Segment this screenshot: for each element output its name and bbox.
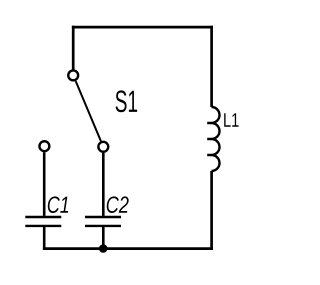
junction node (C2 / bottom rail) bbox=[99, 244, 108, 253]
wire C1 stem bbox=[43, 152, 46, 216]
wire bottom rail bbox=[43, 247, 213, 250]
wire left vertical to switch common bbox=[72, 26, 75, 70]
label L1 bbox=[224, 113, 238, 126]
label C1 bbox=[48, 196, 68, 213]
inductor L1 bbox=[207, 107, 219, 171]
capacitor C2 top plate bbox=[85, 216, 121, 218]
label S1 bbox=[116, 90, 138, 112]
switch S1 throw terminal left (to C1) bbox=[39, 141, 49, 151]
switch S1 common terminal bbox=[68, 70, 78, 80]
wire right vertical lower bbox=[210, 171, 213, 250]
capacitor C2 bottom plate bbox=[85, 225, 121, 227]
switch S1 lever bbox=[76, 81, 101, 141]
label C2 bbox=[107, 196, 129, 213]
wire C2 stem bbox=[102, 153, 105, 216]
wire top horizontal bbox=[72, 26, 213, 29]
capacitor C1 top plate bbox=[25, 216, 61, 218]
wire right vertical upper bbox=[210, 26, 213, 107]
capacitor C1 bottom plate bbox=[25, 225, 61, 227]
wire C2 lower stem to bottom rail bbox=[102, 227, 105, 249]
wire C1 lower stem to bottom rail bbox=[43, 227, 46, 250]
switch S1 throw terminal right (to C2) bbox=[98, 142, 108, 152]
